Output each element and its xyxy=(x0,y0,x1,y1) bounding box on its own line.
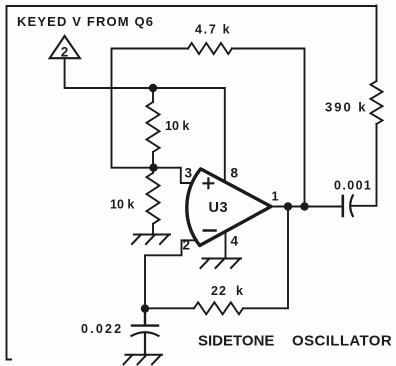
resistor R 4.7k xyxy=(188,43,232,54)
svg-text:2: 2 xyxy=(61,45,69,60)
wire pin 8 drop xyxy=(224,88,226,180)
node dot 0.022 top xyxy=(141,304,149,312)
svg-text:10 k: 10 k xyxy=(165,119,189,133)
node dot 10k top xyxy=(149,84,157,92)
op-amp plus input mark xyxy=(204,178,214,188)
wire 4.7k row left xyxy=(112,48,189,50)
resistor R 22k xyxy=(194,302,243,314)
node dot noninverting input xyxy=(149,164,157,172)
wire 4.7k right leg down to output node xyxy=(232,49,305,207)
svg-text:4.7 k: 4.7 k xyxy=(195,23,231,37)
wire 4.7k left leg down to + node xyxy=(112,49,154,168)
left frame rule xyxy=(7,6,12,360)
wire 22k right leg up to output xyxy=(243,207,288,309)
svg-text:22: 22 xyxy=(211,284,227,298)
op-amp U3 body xyxy=(187,169,271,246)
wire pin 4 to ground xyxy=(225,232,227,259)
wire top rail to 390k xyxy=(7,5,377,7)
capacitor C 0.001 xyxy=(341,196,344,216)
node dot output to 22k xyxy=(284,202,292,210)
svg-text:k: k xyxy=(236,284,243,298)
capacitor C 0.022 xyxy=(132,309,158,326)
svg-text:OSCILLATOR: OSCILLATOR xyxy=(292,333,392,350)
wire pin 3 xyxy=(154,168,192,183)
wire 0.001 right to 390k bottom xyxy=(351,124,377,206)
node dot output to 4.7k xyxy=(300,202,308,210)
resistor R 390k xyxy=(371,81,383,124)
ground under 0.022 xyxy=(124,355,163,365)
svg-text:1: 1 xyxy=(272,190,279,204)
svg-text:2: 2 xyxy=(183,238,191,253)
off-page connector triangle 2 (keyed V from Q6) xyxy=(50,36,80,58)
svg-text:KEYED V FROM Q6: KEYED V FROM Q6 xyxy=(17,14,154,29)
ground under pin 4 xyxy=(201,259,242,269)
wire op-amp output xyxy=(271,206,342,208)
svg-text:0.022: 0.022 xyxy=(81,322,123,336)
wire 390k top to rail xyxy=(376,6,378,82)
resistor R 10k lower xyxy=(147,168,160,235)
op-amp minus input mark xyxy=(204,229,216,232)
svg-text:10 k: 10 k xyxy=(110,198,134,212)
wire 22k left leg xyxy=(145,307,194,309)
ground under lower 10k xyxy=(132,235,170,245)
wire triangle to supply rail xyxy=(65,58,225,88)
svg-text:U3: U3 xyxy=(209,200,229,216)
svg-text:SIDETONE: SIDETONE xyxy=(198,333,274,350)
svg-text:390 k: 390 k xyxy=(325,100,368,115)
svg-text:3: 3 xyxy=(185,166,193,181)
svg-text:4: 4 xyxy=(231,234,239,249)
svg-text:8: 8 xyxy=(231,166,239,181)
wire pin 2 xyxy=(145,240,197,308)
resistor R 10k upper xyxy=(147,88,160,168)
svg-text:0.001: 0.001 xyxy=(334,179,372,193)
